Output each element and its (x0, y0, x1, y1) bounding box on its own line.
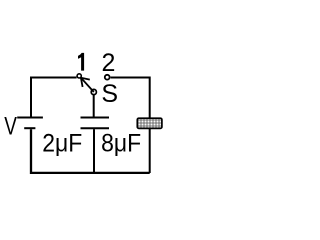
wire left-lower and bottom rail (31, 129, 150, 173)
switch pole pivot circle (91, 89, 96, 94)
wire middle branch lower (capacitor C1 to bottom rail) (93, 129, 95, 173)
wire middle branch upper (switch pole down to capacitor C1) (93, 95, 95, 117)
capacitor C1 2uF top plate (81, 117, 110, 119)
capacitor C1 2uF bottom plate (81, 127, 110, 129)
svg-text:8μF: 8μF (101, 129, 141, 157)
switch blade arrowhead barb right (81, 78, 90, 80)
switch blade (lever from pole to contact 1) (81, 78, 94, 92)
battery V short plate (negative) (24, 127, 35, 129)
svg-text:2μF: 2μF (42, 129, 82, 157)
wire top-right segment and right rail (contact 2 to bottom rail) (111, 78, 150, 174)
battery V long plate (positive) (17, 117, 43, 119)
wire top-left segment (left rail top corner to switch contact 1) (31, 78, 77, 117)
capacitor C2 8uF dielectric-filled box (137, 118, 162, 128)
svg-text:S: S (101, 80, 118, 108)
switch blade arrowhead barb down (81, 78, 83, 87)
switch contact 1 terminal circle (77, 74, 81, 78)
svg-text:V: V (4, 112, 17, 140)
switch contact 2 terminal circle (105, 75, 110, 80)
label 1 (contact 1) (78, 53, 84, 71)
svg-text:2: 2 (102, 49, 116, 77)
